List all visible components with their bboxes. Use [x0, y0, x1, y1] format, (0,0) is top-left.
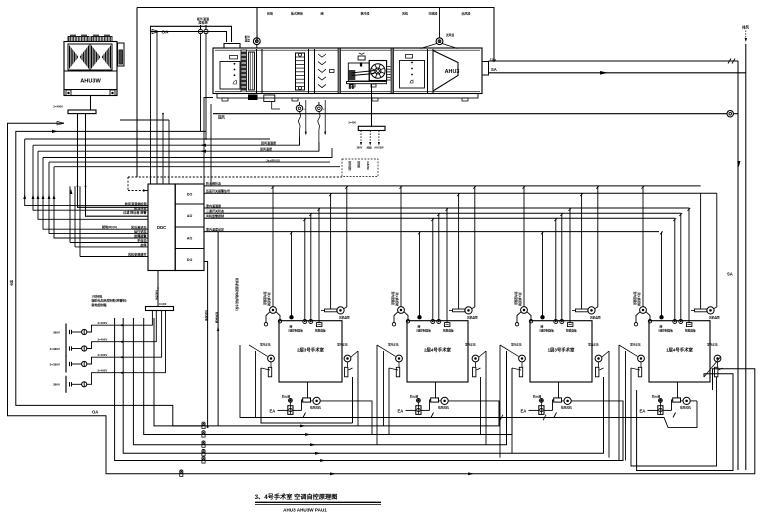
svg-text:室内温湿度: 室内温湿度 — [391, 292, 395, 306]
svg-text:3×400V: 3×400V — [98, 369, 108, 373]
fan power dashed drops — [357, 131, 385, 150]
svg-text:2层3号手术室: 2层3号手术室 — [297, 347, 324, 354]
wire top-left vertical riser — [137, 8, 257, 178]
svg-text:表冷段: 表冷段 — [359, 11, 369, 16]
room unit 2层3号手术室 — [249, 186, 372, 435]
svg-text:室内温度设定: 室内温度设定 — [206, 226, 224, 231]
sensor under coil a — [296, 100, 307, 145]
svg-text:度检测: 度检测 — [198, 20, 207, 25]
svg-text:2层4号手术室: 2层4号手术室 — [424, 347, 451, 354]
svg-text:1层4号手术室: 1层4号手术室 — [666, 347, 693, 354]
left bundle extra rows — [70, 186, 148, 256]
dashed box field controller — [342, 159, 378, 177]
svg-text:SA: SA — [491, 67, 497, 72]
wire OA sensor drop — [201, 34, 207, 140]
room 1 side wiring verticals — [256, 351, 359, 426]
svg-text:防火阀控制: 防火阀控制 — [267, 293, 271, 307]
wire supply sensor drop from top line — [439, 8, 441, 38]
power rows 380V — [50, 311, 166, 393]
local connector room2-3 — [389, 434, 481, 436]
svg-text:控制柜: 控制柜 — [357, 161, 361, 169]
svg-text:AHU3W: AHU3W — [155, 290, 159, 301]
svg-text:AO: AO — [187, 214, 193, 218]
sensor OA temp/humidity pair — [197, 16, 209, 34]
wire condenser power line A to DDC — [77, 114, 148, 208]
svg-text:新风温湿度检测: 新风温湿度检测 — [125, 201, 147, 206]
AHU divider d — [391, 49, 394, 94]
svg-text:三速开关状态: 三速开关状态 — [206, 208, 224, 213]
svg-text:排风风机: 排风风机 — [438, 406, 449, 410]
svg-text:风机盘管: 风机盘管 — [709, 316, 720, 320]
svg-text:板外: 板外 — [245, 35, 251, 39]
svg-text:风机盘管: 风机盘管 — [467, 316, 478, 320]
svg-text:防火阀: 防火阀 — [410, 394, 418, 398]
svg-text:室内正压: 室内正压 — [630, 343, 641, 347]
svg-text:就地控制: 就地控制 — [348, 161, 352, 171]
room unit 1层3号手术室 — [500, 186, 623, 461]
AHU outlet cone — [433, 51, 459, 92]
svg-text:DO: DO — [187, 193, 193, 197]
wire condenser drop to power bar — [90, 96, 92, 111]
svg-text:3×400V: 3×400V — [53, 105, 63, 109]
subtitle — [283, 508, 327, 513]
svg-text:阀: 阀 — [660, 324, 663, 328]
wire row5 supply temp — [38, 142, 319, 153]
power distribution bar — [146, 302, 174, 311]
wire top boundary from supply-air sensor to right drop — [257, 8, 494, 63]
arrow on SA duct — [600, 71, 608, 75]
svg-text:压差开关报警信号: 压差开关报警信号 — [206, 188, 230, 193]
AHU section labels — [267, 11, 471, 16]
svg-text:防火阀控制: 防火阀控制 — [637, 293, 641, 307]
svg-text:室内正压: 室内正压 — [707, 343, 718, 347]
svg-text:就地(R)/(S): 就地(R)/(S) — [102, 224, 117, 229]
room unit 2层4号手术室 — [377, 186, 499, 426]
svg-text:出风段: 出风段 — [461, 11, 470, 16]
svg-text:AHU3: AHU3 — [445, 69, 460, 75]
room 4 side wiring verticals — [619, 345, 626, 461]
AHU divider a — [257, 49, 263, 93]
svg-text:智能面板: 智能面板 — [684, 329, 696, 333]
sensor SA riser — [213, 111, 738, 120]
svg-text:室内正压: 室内正压 — [465, 343, 476, 347]
svg-text:3×380V: 3×380V — [50, 362, 60, 366]
label OA bottom — [92, 409, 98, 414]
wire condenser power line B to DDC — [85, 114, 148, 217]
AHU rear section — [400, 55, 425, 89]
svg-text:防火阀控制: 防火阀控制 — [395, 293, 399, 307]
AHU plate exchanger strip — [249, 52, 255, 90]
wire row6 interlock — [43, 148, 332, 163]
AHU inlet hood — [221, 44, 243, 49]
svg-text:新风机组配电箱(风机水泵): 新风机组配电箱(风机水泵) — [235, 278, 239, 311]
svg-text:手自动: 手自动 — [137, 238, 146, 243]
svg-text:OA: OA — [92, 409, 98, 414]
bottom bus lines with terminals — [115, 318, 623, 476]
svg-text:AHU3W: AHU3W — [80, 79, 101, 85]
title text — [255, 493, 338, 501]
svg-text:温度: 温度 — [245, 38, 251, 42]
svg-text:风机变频调节: 风机变频调节 — [128, 252, 147, 257]
svg-text:智能面板: 智能面板 — [314, 329, 326, 333]
power bar of condenser — [53, 105, 96, 114]
label top-right duct — [742, 25, 749, 43]
svg-text:控制: 控制 — [367, 145, 373, 149]
svg-text:EA: EA — [640, 409, 646, 414]
svg-text:380V: 380V — [53, 383, 60, 387]
svg-text:运行状态: 运行状态 — [134, 229, 147, 234]
dashed rect around rooms top edge — [128, 177, 342, 192]
drain under AHU — [248, 95, 280, 110]
svg-text:风机盘管控制: 风机盘管控制 — [206, 213, 224, 218]
svg-text:室内正压: 室内正压 — [511, 343, 522, 347]
label SA mid right — [727, 272, 733, 277]
svg-text:阀: 阀 — [418, 324, 421, 328]
AHU humidifier section — [296, 53, 305, 90]
svg-text:380V: 380V — [53, 330, 60, 334]
room4 pair bottom loop — [631, 368, 733, 471]
wire SA duct lower — [489, 72, 746, 74]
wire RA riser pair — [204, 98, 213, 187]
svg-text:防火阀控制: 防火阀控制 — [518, 293, 522, 307]
wire fan power drop — [371, 84, 373, 126]
wire riser RA a — [204, 262, 209, 429]
wire row3 plain — [25, 138, 270, 140]
left bundle verticals to DDC — [25, 139, 148, 238]
svg-text:3×380V: 3×380V — [50, 347, 60, 351]
title underline — [255, 502, 381, 504]
tick right riser — [728, 59, 735, 64]
wire row2 to bottom — [16, 130, 206, 426]
svg-text:排风控制: 排风控制 — [205, 310, 209, 321]
wire OA duct upper line — [150, 26, 232, 42]
svg-text:排风: 排风 — [742, 25, 749, 30]
AHU filter strip — [241, 50, 248, 93]
svg-text:室内温湿度: 室内温湿度 — [263, 292, 267, 306]
svg-text:DDC: DDC — [157, 225, 166, 230]
svg-text:AHU3 AHU3W PAU1: AHU3 AHU3W PAU1 — [283, 508, 327, 513]
svg-text:均流段: 均流段 — [428, 11, 437, 16]
svg-text:板式换热: 板式换热 — [291, 11, 303, 16]
svg-text:防火阀: 防火阀 — [652, 394, 660, 398]
svg-text:送风温: 送风温 — [445, 33, 454, 37]
DDC input labels — [102, 201, 147, 257]
svg-text:3速控制面板: 3速控制面板 — [539, 329, 554, 333]
long connector y417 — [240, 345, 697, 427]
svg-text:3×400V: 3×400V — [98, 338, 108, 342]
svg-text:防火阀: 防火阀 — [282, 394, 290, 398]
svg-text:风机盘管: 风机盘管 — [590, 316, 601, 320]
svg-text:防火阀状态: 防火阀状态 — [206, 181, 221, 186]
svg-text:室内温湿度: 室内温湿度 — [514, 292, 518, 306]
svg-text:智能面板: 智能面板 — [565, 329, 577, 333]
svg-text:3速控制面板: 3速控制面板 — [416, 329, 431, 333]
svg-text:室外: 室外 — [10, 280, 15, 286]
AHU divider c — [338, 49, 341, 94]
AHU casing — [213, 48, 482, 101]
svg-text:室内正压: 室内正压 — [260, 343, 271, 347]
wire row4 return-air temp — [33, 137, 300, 147]
svg-text:回风: 回风 — [218, 115, 225, 120]
AHU section1 mixing box — [220, 56, 240, 90]
room unit 1层4号手术室 — [619, 186, 723, 418]
wire riser RA b — [215, 232, 219, 426]
svg-text:DO: DO — [187, 258, 193, 262]
svg-text:故障报警: 故障报警 — [134, 233, 147, 238]
wire SA duct upper — [489, 60, 739, 62]
svg-text:室内正压: 室内正压 — [588, 343, 599, 347]
room 2 side wiring verticals — [377, 345, 486, 445]
svg-text:EA: EA — [270, 409, 276, 414]
svg-text:EA: EA — [521, 409, 527, 414]
svg-text:3速控制面板: 3速控制面板 — [288, 329, 303, 333]
svg-text:防火阀: 防火阀 — [533, 394, 541, 398]
svg-text:排风风机: 排风风机 — [310, 406, 321, 410]
arrows on left bundle — [10, 189, 73, 286]
svg-text:过滤 网压差 报警: 过滤 网压差 报警 — [123, 210, 147, 215]
svg-text:SA: SA — [727, 272, 733, 277]
right riser duct outer — [737, 61, 739, 470]
svg-text:3×400: 3×400 — [159, 302, 167, 306]
DDC output bus lines — [204, 181, 717, 232]
svg-text:风机: 风机 — [402, 11, 408, 16]
svg-text:送风温度: 送风温度 — [259, 146, 273, 151]
room 3 side wiring verticals — [500, 345, 609, 458]
svg-text:室内温湿度: 室内温湿度 — [206, 203, 222, 208]
AHU fan section — [347, 53, 391, 89]
svg-text:排风风机: 排风风机 — [561, 406, 572, 410]
svg-text:初效: 初效 — [267, 11, 274, 16]
local connector room1 — [261, 368, 353, 423]
svg-text:室内温湿度: 室内温湿度 — [633, 292, 637, 306]
svg-text:智能面板: 智能面板 — [442, 329, 454, 333]
AHU outlet stub — [482, 58, 496, 76]
svg-text:室内正压: 室内正压 — [337, 343, 348, 347]
wire DDC bottom to power bar — [155, 271, 159, 307]
svg-text:EA: EA — [398, 409, 404, 414]
sensor under coil b — [316, 100, 327, 151]
svg-text:OA: OA — [162, 29, 170, 34]
svg-text:3×400V: 3×400V — [98, 321, 108, 325]
sensor AHU top left — [245, 35, 261, 49]
svg-text:AHU3W: AHU3W — [374, 146, 384, 149]
fan power bar — [348, 121, 385, 131]
svg-text:1层3号手术室: 1层3号手术室 — [548, 347, 575, 354]
label long riser — [235, 278, 239, 311]
svg-text:启停: 启停 — [140, 242, 147, 247]
svg-text:380V: 380V — [357, 146, 363, 149]
svg-text:3×400: 3×400 — [348, 121, 356, 125]
svg-text:回风温湿度: 回风温湿度 — [261, 140, 277, 145]
sensor AHU top right with bracket — [421, 33, 458, 49]
svg-text:3速控制面板: 3速控制面板 — [658, 329, 673, 333]
svg-text:3、4号手术室 空调自控原理图: 3、4号手术室 空调自控原理图 — [255, 493, 338, 501]
svg-text:阀: 阀 — [541, 324, 544, 328]
svg-text:阀: 阀 — [290, 324, 293, 328]
condenser unit AHU3W — [64, 35, 124, 95]
svg-text:风机盘管: 风机盘管 — [339, 316, 350, 320]
label block power — [92, 294, 127, 307]
label SA at AHU outlet — [491, 67, 497, 72]
right riser duct inner — [745, 44, 747, 470]
svg-text:室内正压: 室内正压 — [388, 343, 399, 347]
wire row8 plain — [54, 166, 340, 168]
svg-text:新风联锁: 新风联锁 — [215, 312, 219, 323]
wire row7 plain — [49, 161, 330, 163]
arrow right riser down — [737, 161, 740, 167]
AHU coil section — [318, 54, 334, 88]
wire row1 short with open arrow — [8, 121, 755, 473]
AHU divider b — [309, 49, 315, 93]
wire drops into DDC top — [120, 26, 169, 184]
wire OA duct lower line with arrow — [150, 29, 227, 42]
svg-text:阀: 阀 — [320, 11, 323, 16]
svg-text:就地控制箱: 就地控制箱 — [92, 302, 107, 307]
svg-text:防冻开关: 防冻开关 — [134, 205, 147, 210]
svg-text:AHU3W: AHU3W — [366, 161, 369, 171]
svg-text:排风风机: 排风风机 — [680, 406, 691, 410]
AHU divider e — [428, 49, 434, 93]
svg-text:AO: AO — [187, 236, 193, 240]
svg-text:3×400V: 3×400V — [98, 353, 108, 357]
controller DDC — [148, 184, 204, 271]
